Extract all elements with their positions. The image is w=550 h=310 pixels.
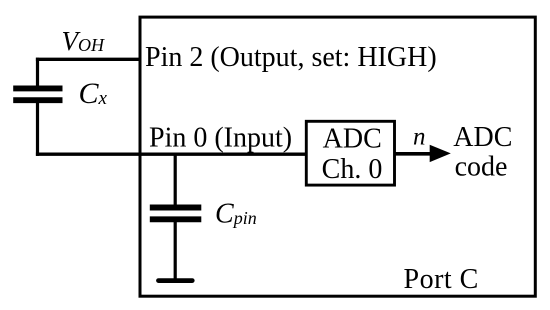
svg-text:Pin 0 (Input): Pin 0 (Input) [149,122,292,153]
wire from Cx down to Pin 0 net [36,100,39,156]
wire Pin 2 output (VOH net) [36,58,140,61]
wire ADC output bus [395,152,433,156]
ground [159,278,193,283]
wire from Cpin to ground [174,219,177,280]
Port C enclosure rectangle [140,17,535,296]
wire from VOH down to capacitor Cx [36,58,39,89]
svg-text:ADC: ADC [453,122,512,153]
capacitor Cx [13,85,62,91]
svg-text:code: code [455,152,508,183]
wire Pin 0 input net [36,152,307,155]
svg-text:ADC: ADC [323,124,382,155]
svg-text:Pin 2 (Output, set: HIGH): Pin 2 (Output, set: HIGH) [145,42,437,73]
arrowhead on ADC output [430,145,451,162]
svg-text:Port C: Port C [404,264,479,295]
svg-text:Ch. 0: Ch. 0 [322,154,383,185]
wire from Pin 0 net down to capacitor Cpin [174,154,177,207]
ADC Ch. 0 block U1 [306,121,394,185]
capacitor Cpin [150,205,202,211]
svg-text:n: n [413,124,426,151]
